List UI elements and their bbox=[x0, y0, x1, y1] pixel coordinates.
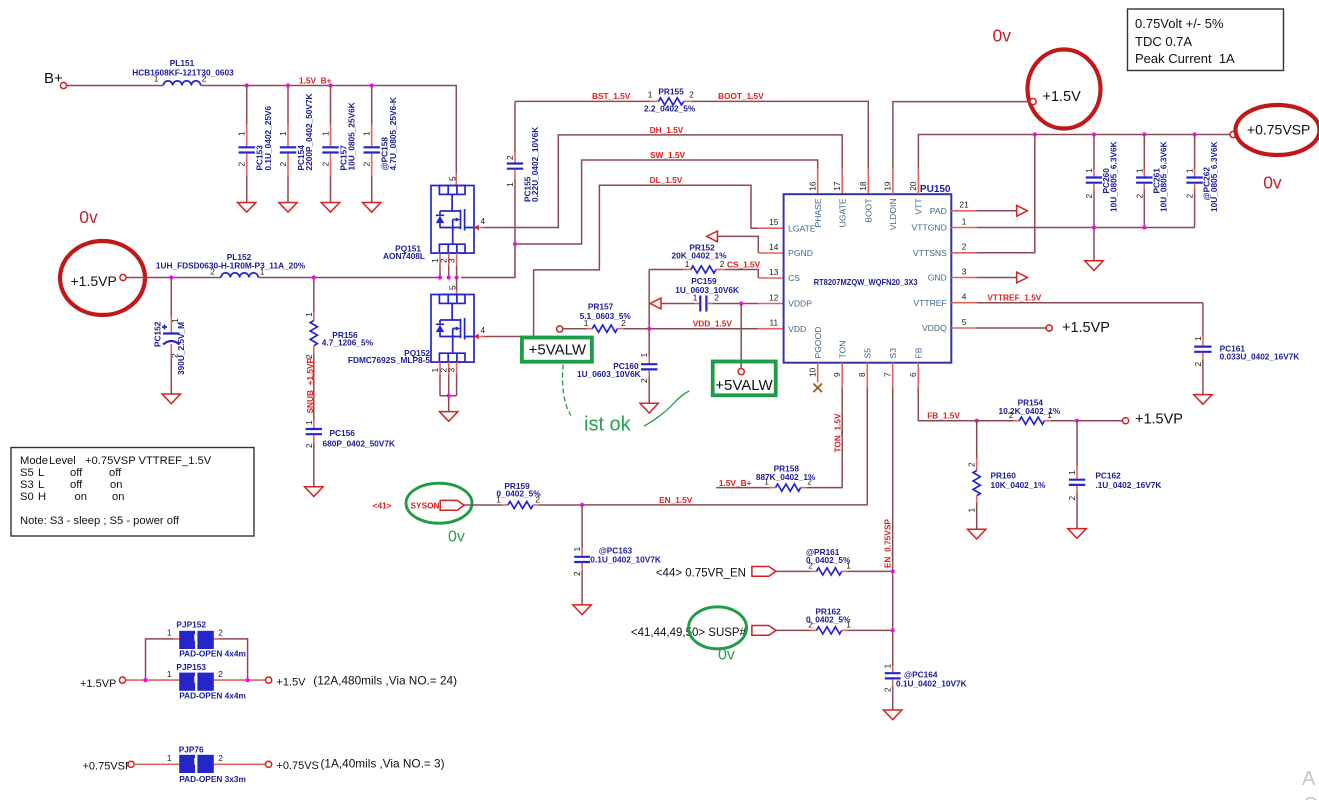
svg-text:+0.75VSP: +0.75VSP bbox=[85, 455, 136, 467]
ground under PC156 bbox=[305, 487, 323, 497]
pin 4 VTTREF wire / net VTTREF_1.5V bbox=[951, 302, 976, 304]
annotation green squiggle right bbox=[644, 391, 689, 426]
wire VDDP to +5VALW bbox=[740, 304, 742, 369]
ground under PC158 bbox=[363, 203, 381, 213]
svg-text:HCB1608KF-121T30_0603: HCB1608KF-121T30_0603 bbox=[132, 68, 234, 78]
svg-text:PHASE: PHASE bbox=[813, 198, 823, 227]
svg-text:Mode: Mode bbox=[20, 455, 48, 467]
wire DH_1.5V bbox=[484, 135, 842, 228]
svg-text:2: 2 bbox=[218, 669, 223, 679]
mode table bbox=[11, 448, 254, 537]
svg-text:0.033U_0402_16V7K: 0.033U_0402_16V7K bbox=[1220, 352, 1300, 362]
svg-text:<44> 0.75VR_EN: <44> 0.75VR_EN bbox=[656, 568, 746, 580]
svg-text:+1.5V: +1.5V bbox=[1043, 89, 1082, 105]
pin 5 VDDQ wire to +1.5VP bbox=[951, 327, 976, 329]
junction SW node at PC155 bbox=[513, 242, 517, 246]
svg-text:L: L bbox=[38, 467, 44, 479]
svg-text:0.22U_0402_10V6K: 0.22U_0402_10V6K bbox=[530, 127, 540, 202]
svg-text:PAD-OPEN 3x3m: PAD-OPEN 3x3m bbox=[179, 774, 246, 784]
resistor PR156 4.7_1206_5% bbox=[313, 278, 315, 313]
svg-text:PAD: PAD bbox=[930, 206, 947, 216]
svg-text:VTTREF: VTTREF bbox=[913, 298, 946, 308]
wire snubber bbox=[313, 354, 315, 420]
svg-text:PU150: PU150 bbox=[920, 184, 951, 195]
svg-text:2: 2 bbox=[883, 687, 893, 692]
annotation green ellipse around SUSP# bbox=[689, 607, 747, 649]
svg-text:BST_1.5V: BST_1.5V bbox=[592, 91, 631, 101]
svg-text:+0.75VSP: +0.75VSP bbox=[83, 761, 133, 773]
svg-text:PR155: PR155 bbox=[658, 87, 684, 97]
capacitor PC161 0.033U_0402_16V7K bbox=[1202, 303, 1204, 336]
svg-text:2: 2 bbox=[535, 494, 540, 504]
svg-text:8: 8 bbox=[857, 372, 867, 377]
capacitor PC154 2200P_0402_50V7K bbox=[287, 86, 289, 125]
ground under PC162 bbox=[1068, 529, 1086, 539]
wire S3 / EN_0.75VSP bbox=[892, 363, 894, 388]
svg-text:EN_1.5V: EN_1.5V bbox=[659, 495, 693, 505]
capacitor PC157 10U_0805_25V6K bbox=[330, 86, 332, 125]
resistor PR158 887K_0402_1% bbox=[801, 487, 807, 489]
pin 3 GND wire and arrow bbox=[951, 277, 976, 279]
svg-text:1: 1 bbox=[693, 293, 698, 303]
svg-text:2: 2 bbox=[321, 162, 331, 167]
svg-text:20: 20 bbox=[908, 181, 918, 191]
capacitor PC160 1U_0603_10V6K bbox=[648, 329, 650, 356]
svg-text:off: off bbox=[70, 467, 83, 479]
svg-text:2200P_0402_50V7K: 2200P_0402_50V7K bbox=[304, 93, 314, 170]
svg-text:VLDOIN: VLDOIN bbox=[888, 198, 898, 230]
svg-text:+1.5VP: +1.5VP bbox=[1062, 320, 1110, 336]
svg-text:off: off bbox=[109, 467, 122, 479]
resistor PR160 10K_0402_1% bbox=[976, 421, 978, 459]
svg-text:0.1U_0402_10V7K: 0.1U_0402_10V7K bbox=[896, 679, 967, 689]
svg-text:0v: 0v bbox=[79, 207, 98, 227]
svg-text:EN_0.75VSP: EN_0.75VSP bbox=[883, 519, 893, 568]
svg-text:9: 9 bbox=[832, 372, 842, 377]
wire 1.5V_B+ rail bbox=[201, 86, 457, 174]
svg-text:A: A bbox=[1302, 768, 1316, 790]
wire CS to VDD vertical bbox=[648, 270, 650, 329]
ground under PC161 bbox=[1194, 395, 1212, 405]
svg-text:SYSON: SYSON bbox=[411, 500, 440, 510]
svg-text:4: 4 bbox=[962, 292, 967, 302]
svg-text:VDD_1.5V: VDD_1.5V bbox=[693, 319, 733, 329]
svg-text:10K_0402_1%: 10K_0402_1% bbox=[991, 480, 1047, 490]
svg-text:0v: 0v bbox=[1263, 173, 1282, 193]
svg-text:TON: TON bbox=[838, 341, 848, 359]
svg-text:1: 1 bbox=[321, 131, 331, 136]
svg-text:+0.75VSP: +0.75VSP bbox=[1247, 122, 1310, 138]
svg-text:2: 2 bbox=[1193, 362, 1203, 367]
svg-text:VTTGND: VTTGND bbox=[911, 223, 946, 233]
svg-text:1: 1 bbox=[764, 477, 769, 487]
svg-text:+5VALW: +5VALW bbox=[715, 377, 773, 394]
svg-text:H: H bbox=[38, 491, 46, 503]
svg-text:ist ok: ist ok bbox=[584, 414, 632, 436]
wire SW_1.5V bbox=[515, 160, 818, 244]
junction on 1.5V_B+ rail x=288 bbox=[286, 83, 290, 87]
svg-text:+0.75VS: +0.75VS bbox=[276, 760, 319, 772]
capacitor PC158 4.7U_0805_25V6-K bbox=[371, 86, 373, 125]
svg-text:VTTREF_1.5V: VTTREF_1.5V bbox=[987, 293, 1041, 303]
svg-text:1: 1 bbox=[883, 664, 893, 669]
wire TON_1.5V pin9 bbox=[841, 363, 843, 388]
svg-text:0v: 0v bbox=[448, 529, 465, 546]
svg-text:1: 1 bbox=[1185, 168, 1195, 173]
junction on 1.5V_B+ rail x=246.7 bbox=[245, 83, 249, 87]
capacitor PC153 0.1U_0402_25V6 bbox=[246, 86, 248, 125]
node +5VALW (green box 1) bbox=[522, 338, 592, 362]
svg-text:VTT: VTT bbox=[914, 198, 924, 215]
wire SW to PQ152 drain pin5 bbox=[456, 278, 458, 291]
resistor PR161 0_0402_5% bbox=[776, 570, 811, 572]
svg-text:PC162: PC162 bbox=[1095, 471, 1121, 481]
svg-text:2: 2 bbox=[1185, 194, 1195, 199]
svg-text:1U_0603_10V6K: 1U_0603_10V6K bbox=[577, 369, 641, 379]
inductor PL152 bbox=[221, 273, 258, 278]
svg-text:3: 3 bbox=[962, 266, 967, 276]
svg-text:1: 1 bbox=[1134, 168, 1144, 173]
svg-text:2: 2 bbox=[720, 259, 725, 269]
resistor PR152 20K_0402_1% bbox=[649, 269, 683, 271]
svg-text:4.7_1206_5%: 4.7_1206_5% bbox=[322, 338, 374, 348]
svg-text:1: 1 bbox=[572, 547, 582, 552]
capacitor PC159 1U_0603_10V6K bbox=[650, 298, 661, 309]
wire VTTGND rail bbox=[951, 227, 976, 229]
svg-text:1: 1 bbox=[639, 353, 649, 358]
svg-text:2: 2 bbox=[1134, 194, 1144, 199]
svg-text:2: 2 bbox=[362, 162, 372, 167]
capacitor PC155 0.22U_0402_10V6K bbox=[514, 101, 516, 152]
svg-text:PL151: PL151 bbox=[170, 58, 195, 68]
svg-text:(1A,40mils ,Via NO.= 3): (1A,40mils ,Via NO.= 3) bbox=[321, 757, 445, 771]
svg-text:PJP152: PJP152 bbox=[176, 620, 206, 630]
svg-text:390U_2.5V_M: 390U_2.5V_M bbox=[176, 322, 186, 375]
svg-text:2: 2 bbox=[278, 162, 288, 167]
pin 2 VTTSNS wire bbox=[951, 252, 976, 254]
junction EN_0.75VSP / PR162 bbox=[891, 628, 895, 632]
annotation green ellipse around SYSON bbox=[406, 483, 472, 523]
capacitor PC163 0.1U_0402_10V7K bbox=[581, 505, 583, 548]
svg-text:PR160: PR160 bbox=[991, 471, 1017, 481]
svg-text:C: C bbox=[1303, 794, 1317, 800]
junction VTT rail x=1194.6 bbox=[1193, 132, 1197, 136]
junction EN_0.75VSP / PR161 bbox=[891, 569, 895, 573]
junction VTT rail x=1034.8 bbox=[1033, 132, 1037, 136]
junction on 1.5V_B+ rail x=330.5 bbox=[328, 83, 332, 87]
PQ151 gate pin4 arrow bbox=[474, 225, 479, 231]
svg-text:PAD-OPEN 4x4m: PAD-OPEN 4x4m bbox=[179, 649, 246, 659]
capacitor PC162 .1U_0402_16V7K bbox=[1076, 421, 1078, 466]
svg-text:2: 2 bbox=[962, 242, 967, 252]
svg-text:1.5V_B+: 1.5V_B+ bbox=[719, 478, 752, 488]
svg-text:PC152: PC152 bbox=[152, 321, 162, 347]
svg-text:+1.5V: +1.5V bbox=[276, 677, 306, 689]
svg-text:<41>: <41> bbox=[373, 501, 392, 511]
svg-text:1.5V B+: 1.5V B+ bbox=[299, 76, 332, 86]
svg-text:5: 5 bbox=[962, 317, 967, 327]
svg-text:1: 1 bbox=[278, 131, 288, 136]
svg-text:UGATE: UGATE bbox=[838, 198, 848, 227]
svg-text:21: 21 bbox=[959, 200, 969, 210]
svg-text:1: 1 bbox=[962, 216, 967, 226]
svg-text:3: 3 bbox=[447, 368, 457, 373]
svg-text:1: 1 bbox=[505, 182, 515, 187]
svg-text:0.1U_0402_10V7K: 0.1U_0402_10V7K bbox=[590, 554, 661, 564]
annotation red ellipse +0.75VSP bbox=[1236, 105, 1319, 155]
svg-text:15: 15 bbox=[769, 217, 779, 227]
wire S5 / EN_1.5V bbox=[866, 363, 868, 388]
PQ152 gate wire to DL bbox=[484, 336, 534, 338]
svg-text:FDMC7692S_MLP8-5: FDMC7692S_MLP8-5 bbox=[348, 355, 430, 365]
svg-text:2.2_0402_5%: 2.2_0402_5% bbox=[644, 103, 696, 113]
svg-text:BOOT: BOOT bbox=[864, 198, 874, 223]
svg-text:PJP76: PJP76 bbox=[179, 745, 204, 755]
svg-text:S5: S5 bbox=[863, 348, 873, 359]
svg-text:PGND: PGND bbox=[788, 248, 813, 258]
resistor PR157 5.1_0603_5% bbox=[557, 326, 563, 332]
svg-text:on: on bbox=[112, 491, 124, 503]
svg-text:2: 2 bbox=[808, 561, 813, 571]
svg-text:1: 1 bbox=[304, 312, 314, 317]
svg-text:1: 1 bbox=[362, 131, 372, 136]
transistor PQ151 AON7408L bbox=[431, 186, 474, 266]
svg-text:LGATE: LGATE bbox=[788, 223, 816, 233]
svg-text:1U_0603_10V6K: 1U_0603_10V6K bbox=[675, 285, 739, 295]
ground under PQ152 bbox=[440, 412, 458, 422]
svg-text:11: 11 bbox=[769, 318, 778, 328]
svg-text:14: 14 bbox=[769, 242, 779, 252]
resistor PR162 0_0402_5% bbox=[776, 629, 811, 631]
svg-text:VDDP: VDDP bbox=[788, 299, 812, 309]
ground under PC160 bbox=[640, 403, 658, 413]
ground under PC152 bbox=[162, 394, 180, 404]
junction VTT rail x=1144.3 bbox=[1142, 132, 1146, 136]
svg-text:GND: GND bbox=[928, 273, 947, 283]
resistor PR154 10.2K_0402_1% bbox=[977, 420, 1014, 422]
node +1.5V (VLDOIN) bbox=[892, 169, 894, 194]
svg-text:0v: 0v bbox=[993, 26, 1012, 46]
svg-text:+5VALW: +5VALW bbox=[529, 341, 587, 358]
svg-text:1: 1 bbox=[154, 74, 159, 84]
svg-text:TON_1.5V: TON_1.5V bbox=[832, 413, 842, 453]
svg-text:4: 4 bbox=[481, 325, 486, 335]
svg-text:1: 1 bbox=[1047, 410, 1052, 420]
svg-text:PC156: PC156 bbox=[330, 428, 356, 438]
svg-text:VDD: VDD bbox=[788, 324, 806, 334]
pin 10 PGOOD no-connect X bbox=[817, 363, 819, 383]
svg-text:1: 1 bbox=[260, 267, 265, 277]
svg-text:1: 1 bbox=[648, 90, 653, 100]
junction VDD node bbox=[647, 327, 651, 331]
op-amp U1 : IC PU150 RT8207MZQW_WQFN20_3X3 bbox=[784, 194, 952, 363]
svg-text:5: 5 bbox=[448, 176, 458, 181]
svg-text:FB: FB bbox=[914, 347, 924, 358]
info box 0.75Volt bbox=[1128, 9, 1284, 71]
svg-text:L: L bbox=[38, 479, 44, 491]
capacitor PC164 0.1U_0402_10V7K bbox=[892, 666, 894, 672]
svg-text:2: 2 bbox=[808, 620, 813, 630]
PQ152 gate pin4 arrow bbox=[474, 334, 479, 340]
ground under PC163 bbox=[573, 605, 591, 615]
ground under PC164 bbox=[884, 710, 902, 720]
svg-text:on: on bbox=[110, 479, 122, 491]
svg-text:1: 1 bbox=[1193, 336, 1203, 341]
svg-text:S5: S5 bbox=[20, 467, 34, 479]
svg-text:10U_0805_6.3V6K: 10U_0805_6.3V6K bbox=[1108, 141, 1118, 212]
svg-text:VDDQ: VDDQ bbox=[922, 323, 947, 333]
svg-text:2: 2 bbox=[304, 443, 314, 448]
svg-text:2: 2 bbox=[714, 293, 719, 303]
ground under PC154 bbox=[279, 203, 297, 213]
annotation green squiggle left bbox=[563, 365, 571, 416]
svg-text:3: 3 bbox=[447, 258, 457, 263]
svg-text:SW_1.5V: SW_1.5V bbox=[650, 150, 686, 160]
svg-text:10: 10 bbox=[808, 367, 818, 377]
ground under PC153 bbox=[238, 203, 256, 213]
svg-text:+1.5VP: +1.5VP bbox=[71, 273, 117, 289]
wire PL152 to SW rail bbox=[258, 277, 440, 279]
svg-text:0.75Volt +/- 5%: 0.75Volt +/- 5% bbox=[1135, 16, 1224, 31]
svg-text:off: off bbox=[70, 479, 83, 491]
svg-text:4: 4 bbox=[481, 216, 486, 226]
svg-text:AON7408L: AON7408L bbox=[383, 251, 425, 261]
junction on 1.5V_B+ rail x=371.7 bbox=[370, 83, 374, 87]
svg-text:680P_0402_50V7K: 680P_0402_50V7K bbox=[323, 439, 395, 449]
svg-text:1: 1 bbox=[1084, 168, 1094, 173]
svg-text:2: 2 bbox=[505, 155, 515, 160]
node +5VALW (green box 2) bbox=[713, 362, 776, 396]
svg-text:1: 1 bbox=[846, 561, 851, 571]
annotation red ellipse +1.5V bbox=[1028, 50, 1101, 129]
inductor PL151 bbox=[163, 81, 200, 86]
svg-text:1: 1 bbox=[167, 753, 172, 763]
svg-text:2: 2 bbox=[218, 753, 223, 763]
svg-text:VTTSNS: VTTSNS bbox=[913, 248, 947, 258]
svg-text:Peak Current 1A: Peak Current 1A bbox=[1135, 51, 1235, 66]
wire VTT rail bbox=[917, 169, 919, 194]
svg-text:S3: S3 bbox=[888, 348, 898, 359]
svg-text:DL_1.5V: DL_1.5V bbox=[650, 175, 683, 185]
svg-text:VTTREF_1.5V: VTTREF_1.5V bbox=[139, 455, 212, 467]
svg-text:2: 2 bbox=[218, 628, 223, 638]
svg-text:10U_0805_6.3V6K: 10U_0805_6.3V6K bbox=[1209, 141, 1219, 212]
svg-text:.1U_0402_16V7K: .1U_0402_16V7K bbox=[1095, 480, 1161, 490]
svg-text:2: 2 bbox=[572, 571, 582, 576]
svg-text:7: 7 bbox=[883, 372, 893, 377]
svg-text:2: 2 bbox=[1009, 410, 1014, 420]
svg-text:1: 1 bbox=[967, 508, 977, 513]
transistor PQ152 FDMC7692S_MLP8-5 bbox=[431, 295, 474, 375]
wire BOOT to pin18 bbox=[692, 101, 868, 168]
svg-text:1: 1 bbox=[685, 259, 690, 269]
capacitor PC261 10U_0805_6.3V6K bbox=[1143, 135, 1145, 170]
wire B+ to PL151 bbox=[67, 85, 163, 87]
svg-text:1: 1 bbox=[846, 620, 851, 630]
svg-text:6: 6 bbox=[908, 372, 918, 377]
svg-text:10U_0805_25V6K: 10U_0805_25V6K bbox=[347, 102, 357, 170]
svg-text:(12A,480mils ,Via NO.= 24): (12A,480mils ,Via NO.= 24) bbox=[313, 674, 457, 688]
svg-text:PJP153: PJP153 bbox=[176, 662, 206, 672]
wire +1.5VP rail bbox=[126, 277, 221, 279]
svg-text:1: 1 bbox=[304, 420, 314, 425]
ground under PC260 column bbox=[1093, 228, 1095, 261]
svg-text:16: 16 bbox=[808, 181, 818, 191]
capacitor PC152 390U_2.5V_M (polarized) bbox=[170, 278, 172, 317]
svg-text:Level: Level bbox=[49, 455, 76, 467]
svg-text:2: 2 bbox=[1084, 194, 1094, 199]
svg-text:on: on bbox=[75, 491, 87, 503]
svg-text:0.1U_0402_25V6: 0.1U_0402_25V6 bbox=[263, 106, 273, 171]
svg-text:2: 2 bbox=[807, 477, 812, 487]
svg-text:FB_1.5V: FB_1.5V bbox=[927, 410, 960, 420]
svg-text:1: 1 bbox=[237, 131, 247, 136]
resistor PR155 2.2_0402_5% bbox=[650, 100, 658, 102]
junction EN node bbox=[580, 503, 584, 507]
svg-text:PGOOD: PGOOD bbox=[813, 327, 823, 359]
svg-text:19: 19 bbox=[883, 181, 893, 191]
svg-text:1UH_FDSD0630-H-1R0M-P3_11A_20%: 1UH_FDSD0630-H-1R0M-P3_11A_20% bbox=[156, 261, 306, 271]
svg-text:1: 1 bbox=[496, 494, 501, 504]
svg-text:+1.5VP: +1.5VP bbox=[80, 678, 116, 690]
ground under PC157 bbox=[321, 203, 339, 213]
svg-text:2: 2 bbox=[621, 318, 626, 328]
svg-text:+1.5VP: +1.5VP bbox=[1135, 412, 1183, 428]
svg-text:CS: CS bbox=[788, 273, 800, 283]
svg-text:0v: 0v bbox=[718, 647, 735, 664]
svg-text:2: 2 bbox=[1067, 496, 1077, 501]
PGND pin14 arrow bbox=[717, 236, 758, 253]
annotation red ellipse +1.5VP bbox=[60, 241, 145, 315]
wire jumper right side bbox=[220, 639, 248, 680]
svg-text:CS_1.5V: CS_1.5V bbox=[727, 259, 761, 269]
svg-text:17: 17 bbox=[832, 181, 842, 191]
svg-text:2: 2 bbox=[202, 74, 207, 84]
pin 21 PAD wire and arrow bbox=[951, 210, 976, 212]
ground under PR160 bbox=[968, 529, 986, 539]
svg-text:4.7U_0805_25V6-K: 4.7U_0805_25V6-K bbox=[388, 97, 398, 170]
svg-text:TDC 0.7A: TDC 0.7A bbox=[1135, 34, 1192, 49]
svg-text:2: 2 bbox=[210, 267, 215, 277]
wire DL_1.5V bbox=[534, 185, 759, 336]
svg-text:12: 12 bbox=[769, 292, 779, 302]
svg-text:PAD-OPEN 4x4m: PAD-OPEN 4x4m bbox=[179, 691, 246, 701]
capacitor PC156 680P_0402_50V7K bbox=[313, 420, 315, 428]
wire BST_1.5V rail bbox=[515, 100, 650, 102]
capacitor PC260 10U_0805_6.3V6K bbox=[1093, 135, 1095, 170]
svg-text:10U_0805_6.3V6K: 10U_0805_6.3V6K bbox=[1159, 141, 1169, 212]
svg-text:2: 2 bbox=[689, 90, 694, 100]
svg-text:2: 2 bbox=[967, 462, 977, 467]
wire SW node down to FET rail bbox=[461, 244, 515, 278]
resistor PR159 0_0402_5% bbox=[464, 504, 502, 506]
capacitor PC262 10U_0805_6.3V6K bbox=[1194, 135, 1196, 170]
svg-text:1: 1 bbox=[167, 628, 172, 638]
svg-text:S3: S3 bbox=[20, 479, 34, 491]
svg-text:RT8207MZQW_WQFN20_3X3: RT8207MZQW_WQFN20_3X3 bbox=[814, 277, 918, 287]
svg-text:5: 5 bbox=[448, 285, 458, 290]
junction VDDP node bbox=[739, 301, 743, 305]
svg-text:1: 1 bbox=[584, 318, 589, 328]
junction VTT rail x=1094 bbox=[1092, 132, 1096, 136]
svg-text:18: 18 bbox=[858, 181, 868, 191]
svg-text:DH_1.5V: DH_1.5V bbox=[650, 125, 684, 135]
svg-text:1: 1 bbox=[1067, 470, 1077, 475]
svg-text:S0: S0 bbox=[20, 491, 34, 503]
svg-text:1: 1 bbox=[167, 669, 172, 679]
wire FB pin6 bbox=[917, 363, 919, 388]
svg-text:BOOT_1.5V: BOOT_1.5V bbox=[718, 91, 764, 101]
